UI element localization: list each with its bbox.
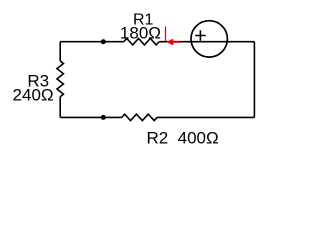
svg-text:180Ω: 180Ω: [120, 24, 161, 43]
svg-text:R2 400Ω: R2 400Ω: [146, 129, 218, 148]
wire bottom-right segment: [157, 116, 254, 118]
wire top-right segment: [159, 41, 254, 43]
wire left side upper: [59, 42, 61, 61]
node B junction dot bottom: [101, 115, 106, 120]
current arrow head: [166, 39, 173, 46]
svg-text:240Ω: 240Ω: [13, 86, 54, 105]
voltage source plus sign: [195, 30, 206, 40]
current arrow shaft: [173, 41, 181, 43]
resistor R3: [57, 61, 64, 97]
voltage source V1: [191, 21, 227, 57]
wire left side lower: [59, 97, 61, 118]
resistor R1: [124, 38, 159, 45]
node A junction dot top: [101, 39, 106, 44]
wire bottom-left segment: [60, 116, 121, 118]
wire right side: [253, 42, 255, 118]
current arrow vertical tick: [165, 26, 167, 41]
wire top-left segment: [60, 41, 124, 43]
resistor R2: [122, 114, 157, 120]
